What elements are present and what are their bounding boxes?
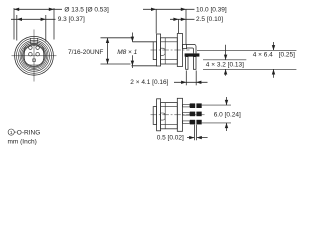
descending pin A top view: [186, 57, 188, 70]
dim 0.5 dimension line right: [197, 137, 208, 139]
keyway notch bottom: [33, 59, 36, 62]
front view inner circle: [24, 45, 45, 66]
dim 2.5 left arrow: [173, 18, 178, 21]
extension line y59.8: [203, 59, 246, 61]
bottom view body step line: [164, 103, 166, 129]
front view horizontal centerline: [12, 55, 57, 57]
bottom view body inner line bottom: [161, 123, 178, 125]
dim 6.4 lower segment: [273, 69, 275, 78]
dim 10.0 left arrow: [151, 8, 156, 11]
dim 2.5 dimension line: [170, 18, 195, 20]
dim 7/16-20UNF bottom extension line: [101, 63, 131, 65]
dim 9.3 left arrow: [17, 18, 22, 21]
dim 6.4 lower arrow: [272, 69, 275, 74]
dim 13.5 dimension line: [14, 8, 62, 10]
front view top tick left: [29, 38, 31, 43]
svg-text:7/16-20UNF: 7/16-20UNF: [68, 49, 103, 56]
front view ring 4: [20, 42, 48, 70]
side view hex nut: [157, 34, 161, 66]
dim 7/16-20UNF dimension line: [107, 38, 109, 64]
side view mounting flange: [177, 34, 182, 67]
legend leader dash: [15, 131, 17, 133]
dim 9.3 right arrow: [41, 18, 46, 21]
dim 0.5 right extension line: [196, 125, 198, 141]
pin 2: [36, 46, 40, 50]
dim M8 top extension line: [132, 41, 153, 43]
dim 6.0 upper segment: [226, 97, 228, 105]
dim 10.0 right extension line: [185, 9, 187, 44]
dim 13.5 left arrow: [14, 8, 19, 11]
dim M8 dimension line lower segment: [131, 55, 133, 68]
pin base block top view: [183, 44, 187, 48]
dim 6.4 upper arrow: [272, 45, 275, 50]
descending pin B top view: [193, 57, 196, 70]
svg-text:mm (Inch): mm (Inch): [8, 139, 37, 146]
pin contact block col2 row3: [196, 120, 201, 125]
dim 6.0 bottom extension line: [202, 122, 231, 124]
bottom view pin row 1: [183, 105, 190, 107]
pin 3: [29, 52, 33, 56]
dim 9.3 dimension line: [11, 18, 56, 20]
dim M8 upper arrow: [131, 37, 134, 42]
pin contact block col2 row1: [196, 103, 201, 108]
dim 6.4 upper segment: [273, 42, 275, 50]
front view outer circle: [15, 36, 54, 75]
dim 3.2 lower arrow: [224, 69, 227, 74]
side view body inner line top: [161, 41, 178, 43]
dim 10.0 right arrow: [181, 8, 186, 11]
pin contact block col1 row2: [190, 112, 195, 117]
pin contact block col1 row3: [190, 120, 195, 125]
pin 4: [36, 52, 40, 56]
bottom view pin row 2: [183, 113, 190, 115]
dim 2.5 extension line: [178, 19, 180, 33]
svg-text:[0.25]: [0.25]: [279, 52, 295, 59]
front view keyway square: [25, 44, 44, 65]
side view body inner line bottom: [161, 59, 178, 61]
dim 13.5 right extension line: [53, 8, 55, 40]
side view centerline: [151, 49, 190, 51]
bottom view M8 thread stub: [153, 107, 156, 125]
dim 10.0 dimension line: [143, 8, 195, 10]
dim 7/16-20UNF top arrow: [106, 38, 109, 43]
dim 0.5 left extension line: [193, 125, 195, 141]
bottom view hex nut: [157, 99, 161, 131]
dim 2x4.1 dimension line: [174, 81, 208, 83]
dim 6.0 top extension line: [202, 104, 231, 106]
dim 0.5 left arrow: [189, 136, 194, 139]
dim 13.5 right arrow: [49, 8, 54, 11]
dim 6.0 lower segment: [226, 123, 228, 131]
dim 9.3 right extension line: [45, 15, 47, 42]
side view M8 thread stub: [153, 42, 156, 60]
front view vertical centerline: [33, 30, 35, 82]
dim 3.2 lower segment: [225, 69, 227, 76]
bottom view centerline: [151, 114, 207, 116]
o-ring bottom view: [161, 113, 166, 120]
front view ring 2: [17, 38, 52, 73]
legend item balloon circle: [8, 129, 14, 135]
dim 9.3 left extension line: [16, 15, 18, 41]
side view threaded body: [161, 38, 178, 64]
front view top tick right: [37, 38, 39, 43]
bottom view threaded body: [161, 103, 178, 129]
extension line y50.3: [197, 49, 296, 51]
dim 0.5 dimension line left: [187, 137, 194, 139]
dim 6.0 upper arrow: [225, 100, 228, 105]
svg-text:0.5 [0.02]: 0.5 [0.02]: [157, 135, 184, 142]
dim 7/16-20UNF top extension line: [101, 37, 133, 39]
svg-text:2.5 [0.10]: 2.5 [0.10]: [196, 16, 223, 23]
svg-text:2 × 4.1 [0.16]: 2 × 4.1 [0.16]: [130, 79, 168, 86]
svg-text:6.0 [0.24]: 6.0 [0.24]: [214, 112, 241, 119]
svg-text:4 × 3.2 [0.13]: 4 × 3.2 [0.13]: [206, 62, 244, 69]
pin contact block col1 row1: [190, 103, 195, 108]
dim 13.5 left extension line: [13, 8, 15, 40]
bent pin top view: [187, 44, 197, 53]
svg-text:9.3 [0.37]: 9.3 [0.37]: [58, 16, 85, 23]
svg-text:M8 × 1: M8 × 1: [117, 49, 137, 56]
dim 2x4.1 left extension line: [185, 71, 187, 86]
dim M8 dimension line upper segment: [131, 33, 133, 42]
dim 2x4.1 left arrow: [181, 81, 186, 84]
dim M8 bottom extension line: [131, 65, 157, 67]
dim 2x4.1 right extension line: [195, 71, 197, 86]
bottom view mounting flange: [177, 98, 182, 131]
svg-text:10.0 [0.39]: 10.0 [0.39]: [196, 6, 227, 13]
svg-text:Ø 13.5 [Ø 0.53]: Ø 13.5 [Ø 0.53]: [64, 6, 109, 13]
front view ring 3: [19, 40, 50, 71]
bottom view pin row 3: [183, 121, 190, 123]
front view ring 5: [21, 43, 46, 68]
pin 1: [29, 46, 33, 50]
dim 7/16-20UNF bottom arrow: [106, 59, 109, 64]
o-ring side view: [161, 48, 166, 55]
dim 0.5 right arrow: [197, 136, 202, 139]
dim 2x4.1 right arrow: [196, 81, 201, 84]
side view body step line: [164, 38, 166, 64]
svg-text:O-RING: O-RING: [17, 129, 40, 136]
dim 3.2 upper segment: [225, 45, 227, 60]
dim 6.0 lower arrow: [225, 123, 228, 128]
extension line y69.3: [203, 68, 296, 70]
front view ring 6: [23, 44, 46, 67]
dim 10.0 left extension line: [155, 9, 157, 33]
svg-text:4 × 6.4: 4 × 6.4: [253, 52, 273, 59]
pin holder bar top view: [185, 53, 200, 56]
dim M8 lower arrow: [131, 61, 134, 66]
pin contact block col2 row2: [196, 112, 201, 117]
dim 2.5 right arrow: [181, 18, 186, 21]
dim 3.2 upper arrow: [224, 55, 227, 60]
svg-text:1: 1: [10, 130, 13, 136]
bottom view body inner line top: [161, 106, 178, 108]
